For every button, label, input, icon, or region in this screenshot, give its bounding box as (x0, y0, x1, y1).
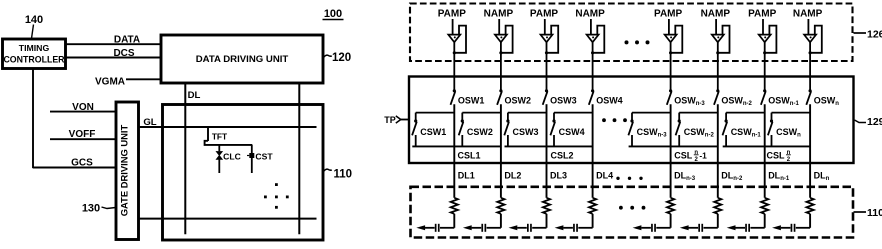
svg-text:NAMP: NAMP (701, 9, 731, 20)
svg-text:GATE DRIVING UNIT: GATE DRIVING UNIT (119, 124, 130, 216)
svg-text:100: 100 (324, 8, 342, 20)
svg-text:TFT: TFT (212, 132, 228, 142)
svg-text:140: 140 (25, 14, 43, 26)
svg-text:DL1: DL1 (458, 170, 475, 180)
svg-text:TIMING: TIMING (19, 43, 50, 53)
svg-text:DATA DRIVING UNIT: DATA DRIVING UNIT (196, 54, 289, 65)
svg-text:110: 110 (334, 168, 353, 180)
svg-text:CSW1: CSW1 (420, 127, 446, 137)
svg-text:CSW2: CSW2 (467, 127, 493, 137)
svg-text:130: 130 (82, 203, 100, 215)
svg-text:GL: GL (143, 117, 156, 128)
svg-text:CLC: CLC (223, 151, 241, 161)
svg-text:CST: CST (255, 151, 273, 161)
svg-text:CSL: CSL (767, 151, 786, 161)
svg-text:DL2: DL2 (504, 170, 521, 180)
svg-text:NAMP: NAMP (793, 9, 823, 20)
svg-text:CSL1: CSL1 (458, 151, 481, 161)
svg-text:VON: VON (72, 102, 94, 113)
svg-text:PAMP: PAMP (654, 9, 682, 20)
svg-text:CSL: CSL (674, 151, 693, 161)
svg-text:PAMP: PAMP (438, 9, 466, 20)
svg-text:PAMP: PAMP (748, 9, 776, 20)
svg-text:OSW4: OSW4 (596, 96, 623, 106)
svg-text:110: 110 (867, 207, 882, 219)
svg-text:NAMP: NAMP (484, 9, 514, 20)
svg-text:PAMP: PAMP (530, 9, 558, 20)
svg-text:DL3: DL3 (550, 170, 567, 180)
svg-text:CSW4: CSW4 (559, 127, 585, 137)
svg-text:DCS: DCS (113, 48, 134, 59)
svg-text:VOFF: VOFF (69, 129, 96, 140)
svg-text:VGMA: VGMA (95, 77, 125, 88)
svg-text:126: 126 (867, 29, 882, 41)
svg-text:NAMP: NAMP (575, 9, 605, 20)
svg-text:GCS: GCS (71, 158, 93, 169)
svg-text:DATA: DATA (114, 34, 140, 45)
svg-text:-1: -1 (699, 151, 707, 161)
svg-text:CSW3: CSW3 (513, 127, 539, 137)
svg-text:120: 120 (332, 52, 351, 64)
svg-text:OSW3: OSW3 (550, 96, 577, 106)
svg-text:DL4: DL4 (596, 170, 613, 180)
svg-text:DL: DL (188, 90, 201, 101)
svg-text:CONTROLLER: CONTROLLER (3, 55, 65, 65)
svg-text:OSW1: OSW1 (458, 96, 485, 106)
svg-text:CSL2: CSL2 (551, 151, 574, 161)
svg-text:OSW2: OSW2 (505, 96, 532, 106)
svg-text:129: 129 (867, 116, 882, 128)
svg-text:TP: TP (384, 115, 396, 125)
